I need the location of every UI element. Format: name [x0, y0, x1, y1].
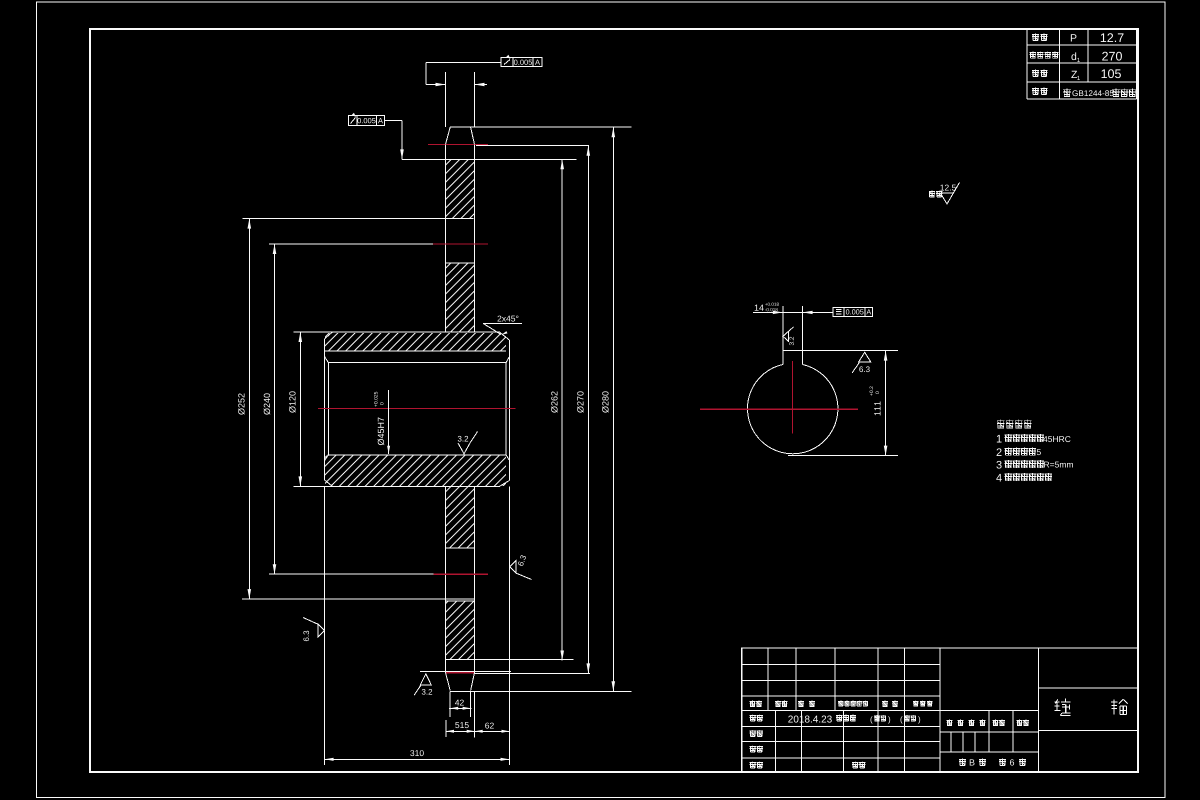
red centerlines of end view	[700, 408, 858, 410]
symbol Z1	[1071, 71, 1077, 78]
width dim extension left	[445, 72, 447, 127]
roughness 3.2 on bore	[458, 436, 468, 442]
red pitch line bottom	[446, 672, 474, 674]
bore dimension dia45H7	[388, 390, 390, 454]
bore bottom line	[328, 454, 506, 456]
bore top line	[328, 362, 506, 364]
hub top-left chamfer	[325, 332, 333, 339]
dimension dia270	[587, 146, 589, 674]
bottom tooth root line	[420, 671, 511, 673]
roughness 6.3 under keyway line	[859, 352, 871, 362]
plate hatch segment D	[446, 601, 474, 659]
req line 1	[997, 435, 1002, 443]
label remark	[1032, 88, 1039, 95]
plate hatch segment A	[446, 160, 474, 218]
keyway top line + 111 extension	[783, 350, 898, 352]
symbol d1	[1071, 52, 1076, 60]
dimension 42	[449, 691, 451, 717]
keyway slot left side	[782, 351, 784, 364]
row: shenhe (checked)	[750, 730, 756, 737]
dia270 top extension (pitch)	[476, 145, 589, 147]
hub left edge	[324, 339, 326, 480]
dimensions 51.5 and 62	[445, 720, 447, 737]
plate right edge lower	[474, 486, 476, 672]
chamfer note 2x45deg	[498, 316, 519, 322]
hub right edge	[509, 340, 511, 480]
dimension 310	[324, 486, 326, 765]
keyway bottom line	[325, 350, 506, 352]
plate hatch segment B	[446, 264, 474, 332]
dimension dia280	[612, 127, 614, 691]
roughness 3.2 at bottom tooth root	[420, 674, 431, 685]
value 105	[1102, 69, 1121, 78]
plate left edge lower	[445, 486, 447, 672]
roughness 6.3 pointing at hub right extension	[510, 560, 517, 573]
value 270	[1102, 52, 1122, 61]
hub lower hatch band	[325, 455, 506, 486]
frame2 leader	[385, 120, 403, 122]
row: pizhun (approved)	[750, 762, 756, 769]
bore circle	[747, 365, 837, 454]
keyway dim extension left	[782, 306, 784, 351]
hub bottom edge + phi120 ext	[294, 485, 500, 487]
keyway slot right side	[802, 351, 804, 365]
plate right edge upper	[474, 144, 476, 332]
hatch boundary line	[446, 600, 475, 602]
symbol P	[1071, 34, 1077, 41]
hatch boundary line	[446, 547, 475, 549]
keyway width dim 14	[753, 311, 833, 313]
hub upper hatch band	[325, 333, 506, 351]
geometric tolerance frame: circular runout 0.005 A (top)	[501, 58, 542, 67]
roughness 6.3 pointing at hub left extension	[318, 624, 324, 636]
note: per GB1244-85	[1063, 89, 1071, 97]
header row labels: biaoji chushu fenqu gaiwenjianhao qianming nianyueri	[750, 701, 756, 707]
dimension 111	[788, 455, 898, 457]
keyway dim extension right	[802, 306, 804, 351]
hub top-right chamfer	[499, 332, 509, 340]
label jieju (pitch)	[1032, 34, 1039, 41]
label roller OD	[1030, 52, 1036, 59]
label chishu (teeth)	[1032, 70, 1039, 77]
sprocket parameter table	[1027, 28, 1136, 30]
dimension dia240	[269, 243, 433, 245]
dimension dia120	[299, 332, 301, 486]
geometric tolerance frame: circular runout 0.005 A (left)	[349, 116, 385, 126]
row: gongyi (process)	[750, 746, 756, 753]
bottom tooth left flank	[446, 673, 451, 691]
req line 2	[997, 448, 1002, 456]
req line 3	[996, 461, 1001, 469]
hatch boundary line	[446, 262, 475, 264]
stage mark / weight / scale headers	[947, 720, 953, 726]
value 12.7	[1101, 33, 1124, 42]
top tooth right flank	[471, 127, 475, 144]
red pitch centerline top	[428, 143, 488, 145]
roughness 3.2 on keyway side	[783, 331, 789, 341]
row: sheji (design) + date 2018.4.23	[750, 715, 756, 722]
hub bottom-right chamfer	[499, 480, 509, 486]
tolerance frame: symmetry 0.005 A	[833, 307, 873, 316]
tooth tip line / dia280 top extension	[450, 126, 632, 128]
plate hatch segment C	[446, 487, 474, 548]
hub red centerline	[318, 408, 516, 410]
dimension dia252	[242, 218, 473, 220]
hub outline	[294, 331, 500, 333]
bottom tooth right flank	[471, 673, 475, 691]
dimension dia262	[561, 159, 563, 660]
req line 4	[996, 474, 1002, 482]
hub bottom-left chamfer	[325, 480, 333, 486]
title: jishu yaoqiu	[997, 420, 1005, 429]
tooth root line / dia262 top extension	[402, 158, 577, 160]
sheet count: gong B zhang di 6 zhang	[959, 759, 966, 766]
general roughness note 12.5	[929, 191, 935, 198]
bottom tooth tip + dia280 ext	[450, 690, 632, 692]
width dim extension right	[474, 72, 476, 127]
part name: lun (wheel)	[1111, 699, 1127, 714]
dia270 bottom extension	[475, 672, 591, 674]
bore chamfer edges	[327, 363, 329, 455]
top tooth left flank	[446, 127, 451, 144]
part name: lian (chain)	[1054, 699, 1070, 716]
tooth width dimension with leader to runout frame	[426, 61, 501, 63]
plate left edge upper	[445, 144, 447, 332]
dia262 bottom extension	[446, 659, 574, 661]
